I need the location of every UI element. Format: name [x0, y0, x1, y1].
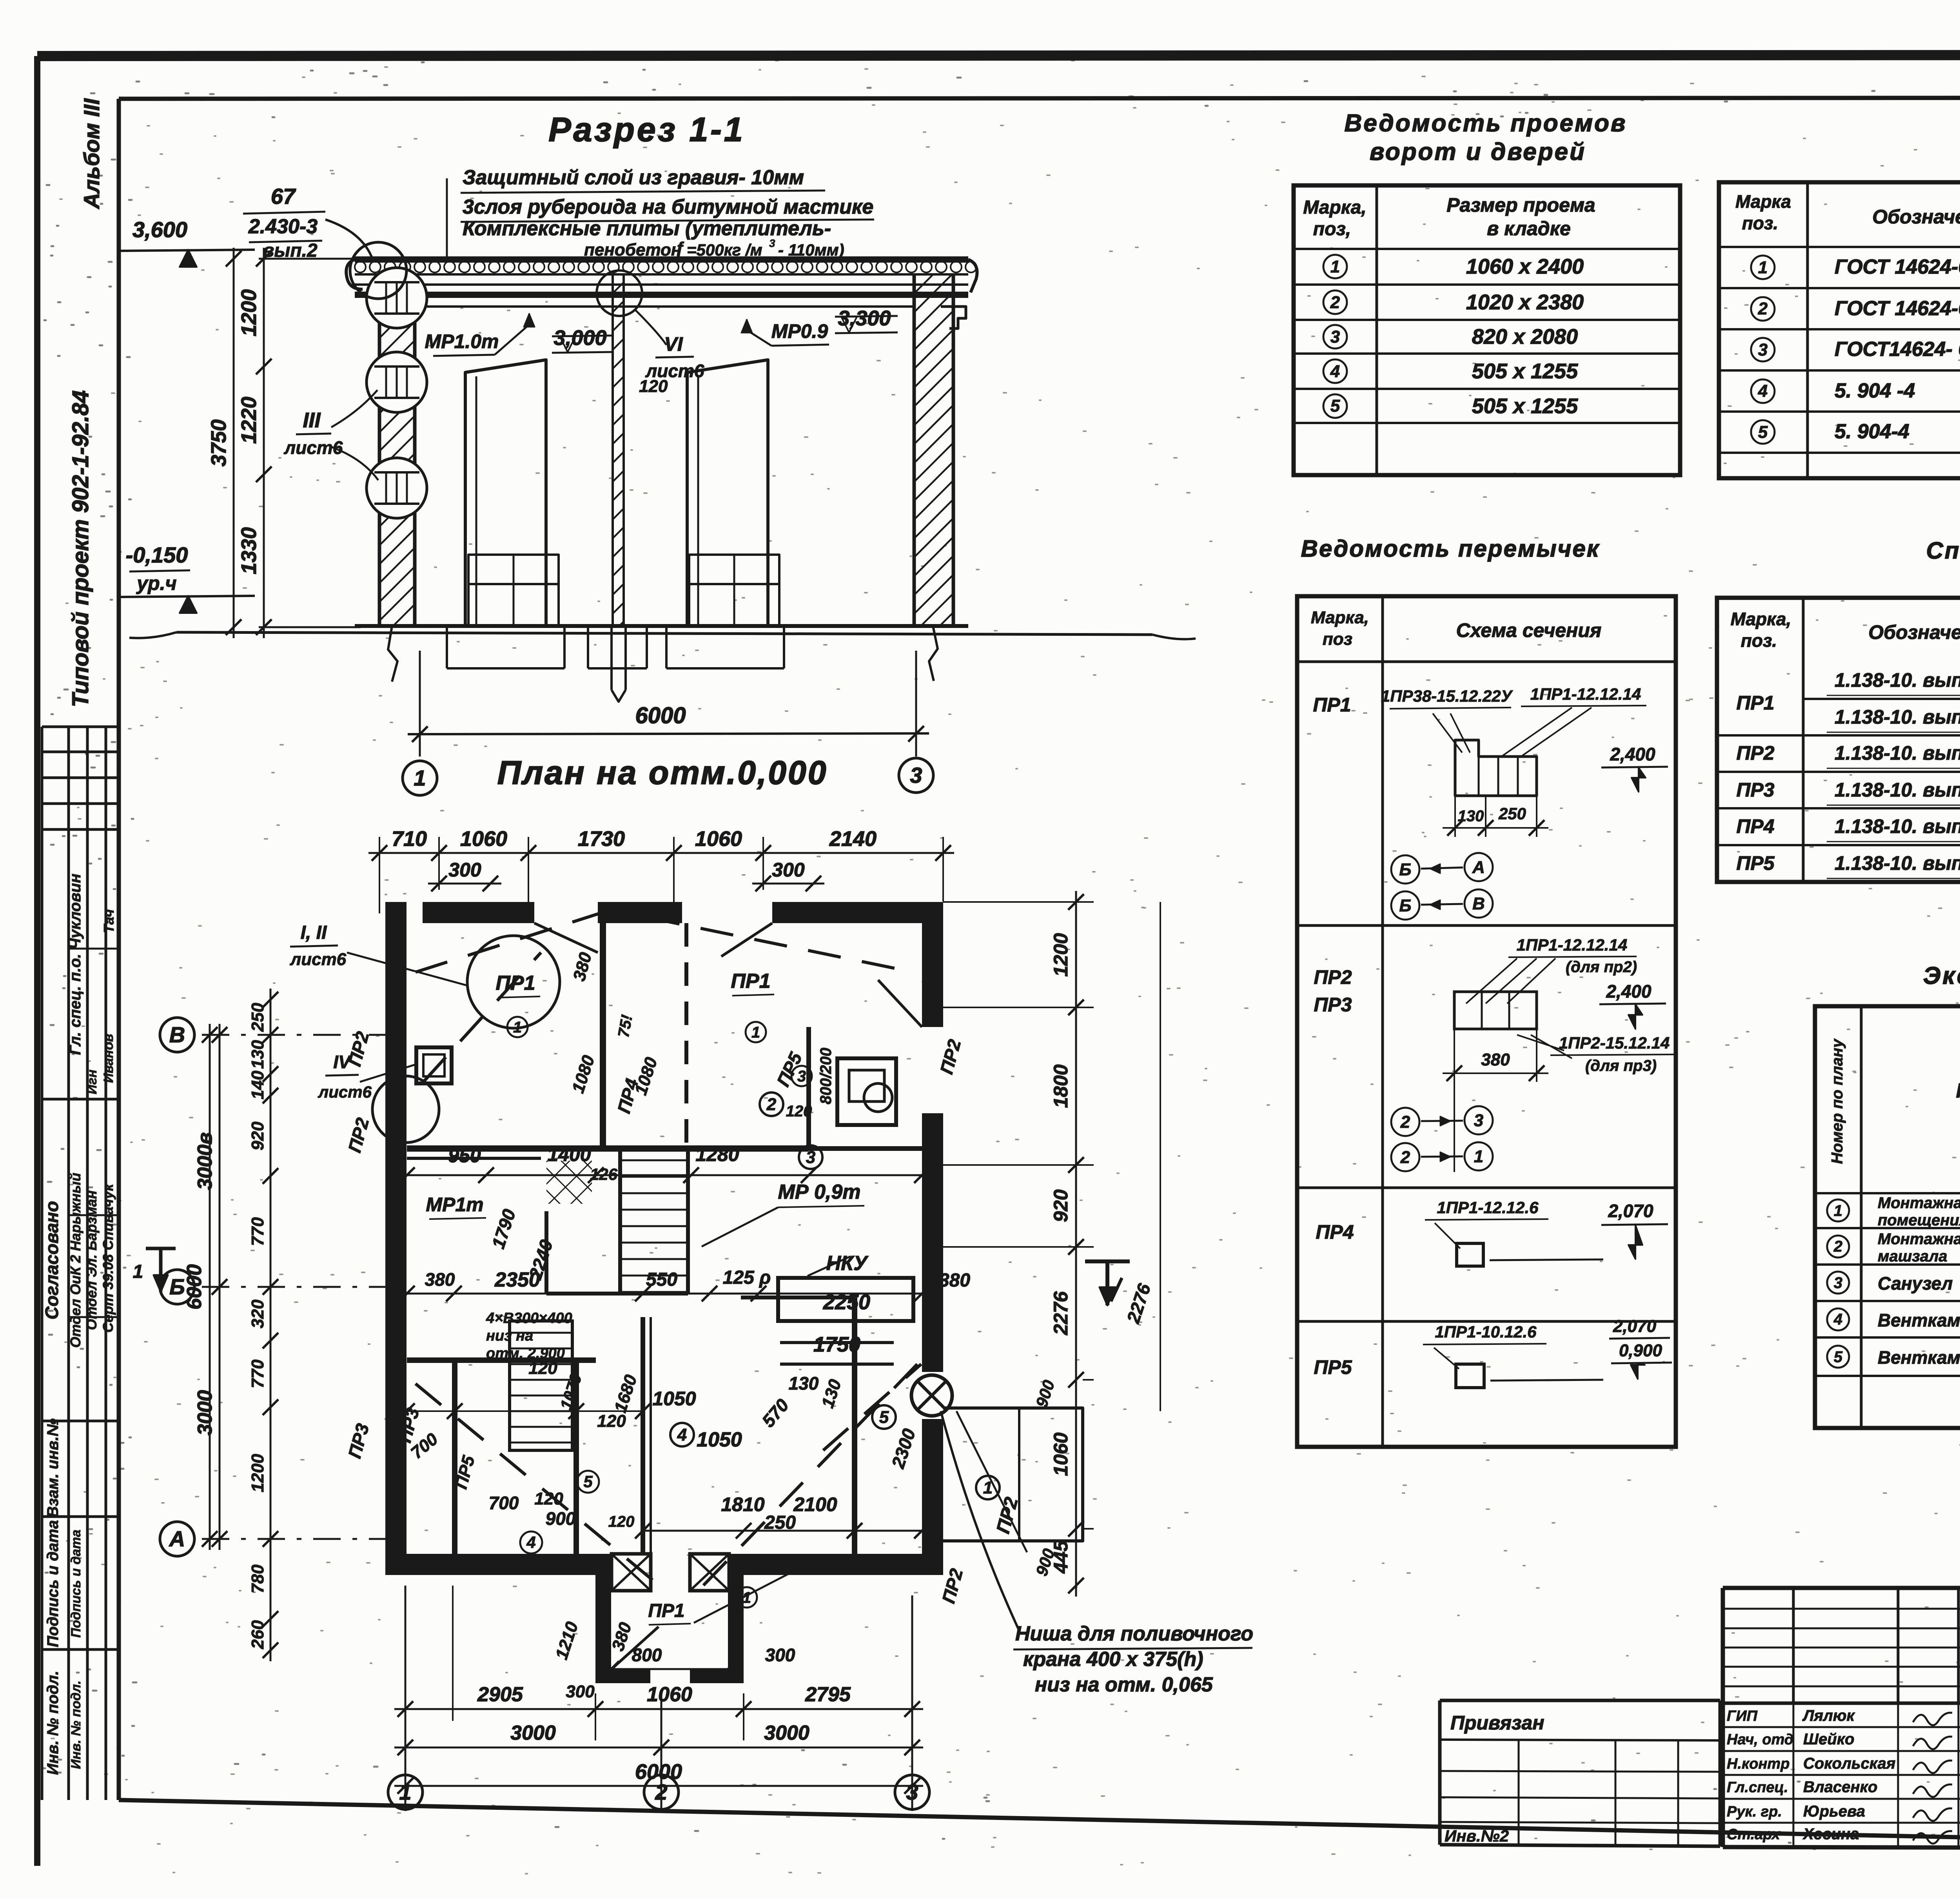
svg-text:920: 920 — [1050, 1189, 1072, 1222]
svg-text:2276: 2276 — [1050, 1291, 1072, 1335]
svg-text:320: 320 — [248, 1299, 267, 1328]
svg-text:3000: 3000 — [764, 1722, 809, 1744]
svg-text:1.138-10. вып.1: 1.138-10. вып.1 — [1835, 706, 1960, 728]
svg-text:ПР1: ПР1 — [1736, 692, 1774, 714]
svg-text:1: 1 — [1758, 258, 1768, 277]
svg-text:Наименование: Наименование — [1956, 1080, 1960, 1102]
svg-text:ƒ: ƒ — [675, 239, 684, 258]
svg-text:2140: 2140 — [829, 827, 877, 851]
svg-text:250: 250 — [248, 1003, 267, 1032]
svg-text:120: 120 — [639, 377, 668, 396]
svg-text:ПР4: ПР4 — [1316, 1221, 1354, 1243]
svg-text:1: 1 — [133, 1261, 143, 1282]
svg-text:Монтажная площадка: Монтажная площадка — [1878, 1230, 1960, 1248]
svg-text:ПР5: ПР5 — [1314, 1356, 1352, 1378]
svg-text:820 x 2080: 820 x 2080 — [1472, 325, 1578, 348]
svg-text:3000: 3000 — [510, 1722, 556, 1744]
svg-text:1060: 1060 — [647, 1683, 692, 1706]
svg-text:Комплексные плиты (утеплитель-: Комплексные плиты (утеплитель- — [463, 217, 831, 240]
svg-text:Лялюк: Лялюк — [1802, 1707, 1855, 1724]
svg-text:Гл. спец. п.о. Чукловин: Гл. спец. п.о. Чукловин — [67, 874, 84, 1055]
svg-text:1330: 1330 — [237, 527, 261, 574]
svg-text:2: 2 — [1758, 299, 1768, 318]
svg-text:5. 904 -4: 5. 904 -4 — [1835, 379, 1915, 402]
svg-text:Марка,: Марка, — [1303, 197, 1367, 218]
svg-text:Ниша для поливочного: Ниша для поливочного — [1015, 1622, 1253, 1645]
svg-text:1200: 1200 — [248, 1454, 267, 1492]
svg-text:5: 5 — [1330, 396, 1340, 416]
svg-text:Ведомость перемычек: Ведомость перемычек — [1301, 535, 1600, 562]
svg-text:1050: 1050 — [652, 1388, 696, 1410]
svg-text:ПР1: ПР1 — [495, 972, 535, 994]
svg-text:ПР1: ПР1 — [731, 970, 770, 993]
svg-text:поз.: поз. — [1741, 630, 1777, 651]
svg-text:поз,: поз, — [1313, 219, 1351, 240]
svg-text:2,400: 2,400 — [1610, 744, 1655, 764]
svg-text:1ПР1-12.12.6: 1ПР1-12.12.6 — [1437, 1198, 1539, 1217]
svg-text:Гл.спец.: Гл.спец. — [1727, 1779, 1788, 1796]
svg-text:Подпись и дата: Подпись и дата — [69, 1530, 83, 1638]
svg-text:5. 904-4: 5. 904-4 — [1835, 420, 1909, 443]
svg-text:МР0.9: МР0.9 — [771, 320, 828, 342]
svg-text:Б: Б — [1399, 860, 1411, 879]
svg-text:в кладке: в кладке — [1487, 218, 1571, 240]
svg-text:Власенко: Власенко — [1803, 1778, 1877, 1796]
svg-text:МР1.0т: МР1.0т — [425, 330, 499, 352]
svg-text:130: 130 — [248, 1040, 267, 1069]
svg-text:1ПР2-15.12.14: 1ПР2-15.12.14 — [1559, 1034, 1670, 1052]
svg-text:4: 4 — [1330, 362, 1340, 381]
svg-text:ГИП: ГИП — [1727, 1708, 1758, 1724]
svg-text:5: 5 — [1758, 423, 1768, 442]
svg-text:машзала: машзала — [1878, 1248, 1947, 1265]
svg-text:ГОСТ 14624-69: ГОСТ 14624-69 — [1835, 297, 1960, 320]
svg-text:План на отм.0,000: План на отм.0,000 — [497, 754, 828, 791]
svg-text:4: 4 — [526, 1533, 535, 1551]
svg-text:Типовой проект 902-1-92.84: Типовой проект 902-1-92.84 — [68, 390, 93, 708]
svg-text:2.430-3: 2.430-3 — [248, 215, 318, 238]
svg-text:2,070: 2,070 — [1608, 1201, 1653, 1221]
svg-text:Сокольская: Сокольская — [1803, 1755, 1895, 1772]
svg-text:Инв.№2: Инв.№2 — [1445, 1827, 1509, 1845]
svg-text:ПР4: ПР4 — [1736, 815, 1774, 837]
svg-text:1200: 1200 — [237, 289, 261, 336]
svg-text:800: 800 — [632, 1645, 662, 1665]
svg-text:300: 300 — [772, 859, 805, 881]
svg-text:Марка,: Марка, — [1731, 609, 1791, 629]
svg-text:1: 1 — [513, 1019, 522, 1036]
svg-text:2,400: 2,400 — [1606, 981, 1651, 1002]
svg-text:1060 x 2400: 1060 x 2400 — [1466, 255, 1584, 278]
svg-text:Н.контр: Н.контр — [1727, 1756, 1789, 1772]
svg-text:1: 1 — [399, 1780, 411, 1804]
svg-text:4×В300×400: 4×В300×400 — [486, 1310, 572, 1326]
svg-text:2: 2 — [1330, 293, 1340, 312]
svg-text:505 x 1255: 505 x 1255 — [1472, 359, 1578, 383]
svg-text:Разрез 1-1: Разрез 1-1 — [548, 111, 745, 149]
svg-text:1810: 1810 — [721, 1493, 764, 1515]
svg-text:3: 3 — [769, 237, 775, 249]
svg-text:120: 120 — [608, 1513, 635, 1530]
svg-text:1.138-10. вып.1: 1.138-10. вып.1 — [1835, 669, 1960, 691]
svg-text:5: 5 — [879, 1408, 889, 1427]
svg-text:Тач: Тач — [101, 909, 117, 933]
svg-text:2: 2 — [1833, 1238, 1842, 1255]
svg-text:1: 1 — [414, 766, 426, 790]
svg-text:1800: 1800 — [1050, 1064, 1072, 1108]
svg-text:ПР2: ПР2 — [1314, 966, 1352, 988]
svg-text:- 110мм): - 110мм) — [778, 241, 844, 259]
svg-text:140: 140 — [248, 1071, 267, 1100]
svg-text:1400: 1400 — [547, 1143, 591, 1165]
svg-text:Подпись и дата: Подпись и дата — [44, 1520, 62, 1647]
svg-text:2350: 2350 — [494, 1268, 540, 1291]
svg-text:1.138-10. вып.1: 1.138-10. вып.1 — [1835, 779, 1960, 801]
svg-text:800/200: 800/200 — [817, 1048, 835, 1105]
svg-text:3: 3 — [1330, 327, 1340, 347]
svg-text:67: 67 — [271, 184, 296, 209]
svg-text:А: А — [169, 1526, 185, 1551]
svg-text:120: 120 — [786, 1103, 812, 1120]
svg-text:2,070: 2,070 — [1613, 1317, 1657, 1336]
svg-text:120: 120 — [528, 1359, 557, 1378]
svg-text:Размер проема: Размер проема — [1446, 194, 1595, 216]
svg-text:2: 2 — [766, 1095, 777, 1114]
svg-text:Шейко: Шейко — [1803, 1731, 1855, 1748]
svg-text:5: 5 — [583, 1472, 593, 1491]
svg-text:3,600: 3,600 — [132, 217, 187, 242]
svg-text:1750: 1750 — [813, 1333, 860, 1356]
svg-text:505 x 1255: 505 x 1255 — [1472, 394, 1578, 418]
svg-text:1200: 1200 — [1050, 933, 1072, 976]
svg-text:ПР1: ПР1 — [1313, 694, 1351, 716]
svg-text:Б: Б — [1399, 896, 1411, 915]
svg-text:Отдел ОиК 2 Нарыжный: Отдел ОиК 2 Нарыжный — [67, 1173, 83, 1348]
svg-text:поз.: поз. — [1742, 213, 1778, 233]
svg-text:1.138-10. вып.1: 1.138-10. вып.1 — [1835, 852, 1960, 874]
svg-text:300: 300 — [448, 859, 481, 881]
svg-text:(для пр2): (для пр2) — [1566, 958, 1637, 976]
svg-text:Иванов: Иванов — [101, 1034, 116, 1083]
svg-text:1ПР38-15.12.22У: 1ПР38-15.12.22У — [1381, 687, 1514, 705]
svg-text:Спецификация перемычек: Спецификация перемычек — [1926, 537, 1960, 564]
svg-text:780: 780 — [248, 1564, 267, 1593]
svg-text:III: III — [303, 408, 321, 432]
svg-text:Хесина: Хесина — [1802, 1825, 1859, 1843]
svg-text:125 ρ: 125 ρ — [723, 1267, 771, 1288]
svg-text:700: 700 — [489, 1493, 519, 1513]
svg-text:Монтажная площадка: Монтажная площадка — [1878, 1194, 1960, 1212]
svg-text:1: 1 — [1474, 1147, 1483, 1166]
svg-text:1.138-10. вып.1: 1.138-10. вып.1 — [1835, 742, 1960, 764]
svg-text:1ПР1-10.12.6: 1ПР1-10.12.6 — [1435, 1323, 1537, 1341]
svg-text:Марка,: Марка, — [1311, 608, 1369, 627]
svg-text:Инв. № подл.: Инв. № подл. — [69, 1680, 83, 1769]
svg-text:IV: IV — [333, 1052, 352, 1072]
svg-text:Венткамера приточная: Венткамера приточная — [1878, 1310, 1960, 1330]
svg-text:3: 3 — [1474, 1111, 1483, 1130]
svg-text:300: 300 — [765, 1645, 795, 1665]
svg-text:5: 5 — [1834, 1348, 1843, 1366]
svg-text:120: 120 — [534, 1489, 563, 1508]
svg-text:2: 2 — [1400, 1148, 1410, 1167]
svg-text:Обозначение: Обозначение — [1868, 621, 1960, 643]
svg-text:В: В — [1472, 894, 1485, 913]
svg-text:Схема сечения: Схема сечения — [1456, 619, 1602, 641]
svg-text:МР 0,9т: МР 0,9т — [778, 1181, 861, 1203]
svg-text:1ПР1-12.12.14: 1ПР1-12.12.14 — [1517, 936, 1627, 954]
svg-text:4: 4 — [1758, 381, 1768, 401]
svg-text:(для пр3): (для пр3) — [1585, 1057, 1657, 1074]
svg-text:ПР5: ПР5 — [1736, 852, 1775, 874]
svg-text:низ на отм. 0,065: низ на отм. 0,065 — [1035, 1673, 1213, 1696]
svg-text:1060: 1060 — [1050, 1432, 1072, 1476]
svg-text:Марка: Марка — [1735, 191, 1791, 212]
svg-text:770: 770 — [248, 1217, 267, 1246]
svg-text:380: 380 — [939, 1270, 970, 1291]
svg-text:ГОСТ 14624-69: ГОСТ 14624-69 — [1835, 256, 1960, 278]
svg-text:Серт 39.08 Спивачук: Серт 39.08 Спивачук — [100, 1183, 116, 1333]
svg-text:Отдел Эл. Барзман: Отдел Эл. Барзман — [83, 1190, 100, 1330]
svg-text:260: 260 — [248, 1620, 267, 1649]
svg-text:300: 300 — [566, 1682, 595, 1701]
svg-text:1.138-10. вып.1: 1.138-10. вып.1 — [1835, 815, 1960, 837]
svg-text:3слоя рубероида на битумной ма: 3слоя рубероида на битумной мастике — [463, 196, 873, 218]
svg-text:3: 3 — [806, 1148, 815, 1167]
svg-text:Согласовано: Согласовано — [42, 1201, 62, 1319]
svg-text:-0,150: -0,150 — [126, 543, 188, 567]
svg-text:Альбом III: Альбом III — [79, 98, 104, 210]
svg-text:Нач, отд: Нач, отд — [1727, 1731, 1793, 1748]
svg-text:Санузел: Санузел — [1878, 1273, 1953, 1294]
svg-text:помещения решеток-дробилок: помещения решеток-дробилок — [1878, 1212, 1960, 1229]
svg-text:0,900: 0,900 — [1619, 1341, 1662, 1360]
svg-text:=500кг /м: =500кг /м — [687, 241, 762, 259]
svg-text:1020 x 2380: 1020 x 2380 — [1466, 290, 1584, 314]
svg-text:1730: 1730 — [578, 827, 625, 851]
svg-text:Ведомость проемов: Ведомость проемов — [1345, 110, 1627, 137]
svg-text:380: 380 — [425, 1269, 455, 1290]
svg-text:Игн: Игн — [85, 1069, 100, 1094]
svg-text:Защитный слой из гравия- 10мм: Защитный слой из гравия- 10мм — [463, 166, 804, 189]
svg-text:ПР3: ПР3 — [1314, 994, 1352, 1016]
svg-text:лист6: лист6 — [318, 1083, 372, 1101]
svg-text:1ПР1-12.12.14: 1ПР1-12.12.14 — [1530, 685, 1641, 703]
svg-text:А: А — [1472, 858, 1485, 877]
svg-text:лист6: лист6 — [290, 950, 347, 969]
svg-text:НКУ: НКУ — [826, 1252, 869, 1275]
svg-text:120: 120 — [597, 1412, 626, 1431]
svg-text:Привязан: Привязан — [1450, 1712, 1544, 1734]
svg-text:2905: 2905 — [477, 1683, 523, 1706]
svg-text:130: 130 — [789, 1373, 819, 1394]
svg-text:1060: 1060 — [460, 827, 507, 851]
svg-text:Рук. гр.: Рук. гр. — [1727, 1804, 1782, 1820]
svg-text:ГОСТ14624- 69: ГОСТ14624- 69 — [1835, 338, 1960, 361]
svg-text:МР1т: МР1т — [426, 1194, 483, 1216]
svg-text:1050: 1050 — [697, 1428, 742, 1451]
svg-text:3: 3 — [910, 763, 922, 788]
svg-text:Юрьева: Юрьева — [1803, 1803, 1865, 1820]
svg-text:1280: 1280 — [695, 1143, 739, 1165]
svg-text:Обозначение: Обозначение — [1872, 206, 1960, 228]
svg-text:3,000: 3,000 — [554, 326, 606, 350]
svg-text:920: 920 — [248, 1121, 267, 1150]
svg-text:130: 130 — [1458, 807, 1484, 825]
svg-text:2795: 2795 — [805, 1683, 851, 1706]
svg-text:3: 3 — [1834, 1274, 1842, 1292]
svg-text:250: 250 — [1498, 804, 1526, 823]
svg-text:ПР2: ПР2 — [1736, 742, 1774, 764]
svg-text:1220: 1220 — [237, 397, 261, 444]
svg-text:крана 400 х 375(h): крана 400 х 375(h) — [1023, 1648, 1203, 1671]
svg-text:710: 710 — [392, 827, 427, 851]
svg-text:I, II: I, II — [301, 922, 327, 943]
svg-text:3000: 3000 — [194, 1390, 216, 1435]
svg-text:низ на: низ на — [486, 1328, 533, 1344]
svg-text:6000: 6000 — [635, 703, 686, 728]
svg-text:3: 3 — [906, 1780, 918, 1804]
svg-text:поз: поз — [1323, 630, 1352, 649]
svg-text:Взам. инв.№: Взам. инв.№ — [44, 1418, 62, 1517]
svg-text:Ст.арх: Ст.арх — [1727, 1826, 1781, 1843]
svg-text:950: 950 — [448, 1145, 481, 1167]
svg-text:Экспликация помещений: Экспликация помещений — [1923, 962, 1960, 989]
svg-text:445: 445 — [1050, 1540, 1072, 1574]
svg-text:3: 3 — [1758, 340, 1768, 359]
svg-text:ПР3: ПР3 — [1736, 779, 1774, 801]
svg-text:380: 380 — [1481, 1050, 1510, 1069]
svg-text:1: 1 — [1330, 257, 1340, 276]
svg-text:1060: 1060 — [695, 827, 742, 851]
svg-text:770: 770 — [248, 1359, 267, 1388]
svg-text:ворот и дверей: ворот и дверей — [1370, 138, 1586, 165]
svg-text:Номер по плану: Номер по плану — [1829, 1038, 1846, 1164]
svg-text:В: В — [169, 1022, 185, 1047]
svg-text:Венткамера вытяжная: Венткамера вытяжная — [1878, 1347, 1960, 1368]
svg-text:Инв. № подл.: Инв. № подл. — [44, 1671, 62, 1775]
svg-text:3750: 3750 — [207, 419, 230, 466]
svg-text:2: 2 — [1400, 1112, 1410, 1132]
svg-text:2100: 2100 — [793, 1493, 837, 1515]
svg-text:1: 1 — [1834, 1202, 1842, 1219]
svg-text:1: 1 — [751, 1024, 760, 1041]
svg-text:2: 2 — [655, 1780, 667, 1804]
svg-text:ур.ч: ур.ч — [136, 572, 176, 594]
svg-text:Б: Б — [169, 1274, 185, 1299]
svg-text:ПР1: ПР1 — [648, 1600, 684, 1621]
svg-text:3000в: 3000в — [194, 1132, 216, 1190]
svg-text:вып.2: вып.2 — [263, 240, 318, 261]
svg-text:4: 4 — [1833, 1311, 1842, 1328]
svg-text:4: 4 — [677, 1425, 687, 1444]
svg-text:900: 900 — [546, 1508, 576, 1529]
